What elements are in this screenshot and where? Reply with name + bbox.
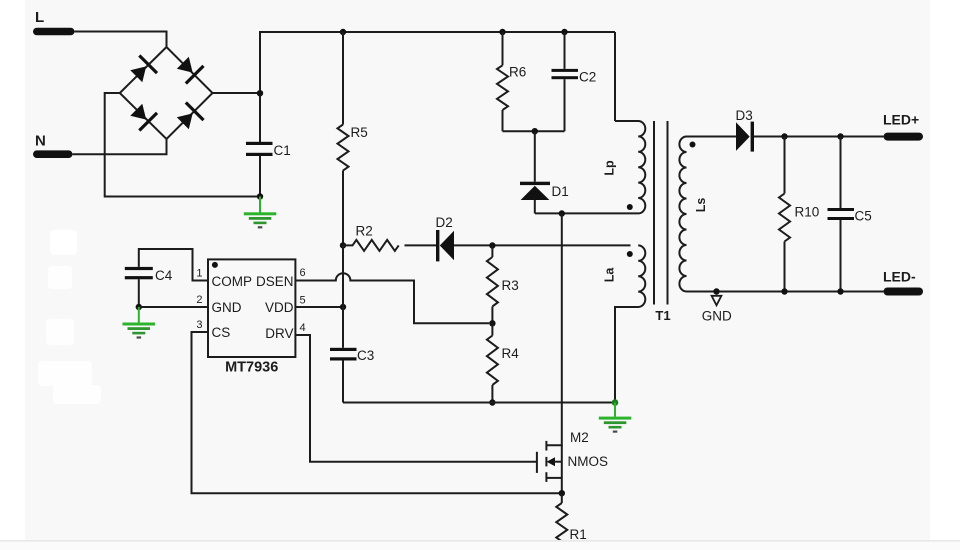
resistor R4 (487, 323, 519, 402)
wire sense bottom rail (343, 402, 615, 404)
svg-text:R1: R1 (570, 527, 587, 542)
wire DRV to gate (296, 335, 537, 462)
node R10 bottom junction (781, 288, 787, 294)
svg-text:C4: C4 (155, 268, 173, 283)
svg-text:MT7936: MT7936 (225, 360, 278, 376)
svg-text:Lp: Lp (603, 160, 617, 176)
svg-text:N: N (35, 133, 46, 150)
node sense ground junction (612, 399, 619, 406)
transformer winding Ls (679, 137, 708, 292)
wire L to bridge (75, 32, 167, 48)
wire bridge positive to C1 node (213, 92, 261, 94)
svg-text:5: 5 (300, 295, 306, 307)
ground under C4 (123, 307, 156, 339)
node R3-R4-DSEN junction (489, 320, 495, 326)
transistor M2 NMOS (537, 430, 608, 493)
wire bridge negative to ground rail (105, 93, 260, 197)
node rail-R5 junction (340, 29, 346, 35)
terminal N (33, 133, 73, 159)
node R10 top junction (781, 133, 787, 139)
svg-text:1: 1 (196, 268, 202, 280)
svg-text:R6: R6 (509, 65, 526, 80)
svg-text:La: La (603, 267, 617, 283)
svg-text:C5: C5 (855, 209, 872, 224)
bridge diode bottom-left (127, 101, 158, 132)
diode D1 (520, 131, 569, 213)
bridge rectifier frame (120, 47, 213, 139)
svg-text:CS: CS (212, 325, 231, 340)
svg-text:DSEN: DSEN (256, 274, 294, 289)
wire snubber bottom (503, 130, 565, 132)
svg-text:COMP: COMP (212, 274, 253, 289)
node R4 bottom junction (489, 399, 495, 405)
svg-text:VDD: VDD (265, 300, 294, 315)
svg-text:DRV: DRV (265, 326, 293, 341)
bridge diode top-left (127, 54, 158, 85)
bridge diode top-right (174, 54, 205, 85)
resistor R2 (343, 224, 399, 251)
node VDD junction (340, 304, 346, 310)
resistor R3 (487, 246, 519, 324)
node R5-R2-VDD junction (340, 242, 346, 248)
ground GND secondary (702, 296, 732, 324)
wire secondary top rail (754, 136, 884, 138)
wire GND pin2 (139, 306, 208, 308)
node DC+ junction (257, 90, 263, 96)
resistor R5 (338, 32, 368, 245)
resistor R10 (779, 137, 819, 292)
node DC- junction (257, 193, 263, 199)
ground under La (599, 403, 632, 433)
svg-text:R5: R5 (351, 125, 368, 140)
svg-text:2: 2 (196, 294, 202, 306)
wire N to bridge bottom vertex (73, 139, 167, 154)
svg-text:D1: D1 (552, 184, 569, 199)
transformer winding La (603, 245, 646, 402)
svg-text:4: 4 (300, 322, 306, 334)
ground primary under C1 (244, 197, 276, 229)
resistor R1 (556, 493, 567, 549)
capacitor C2 (552, 32, 597, 131)
IC U1 MT7936 (208, 259, 295, 375)
terminal LED+ (883, 112, 923, 141)
wire DSEN with hop (296, 273, 490, 323)
diode D3 (736, 108, 755, 152)
svg-text:R3: R3 (502, 278, 519, 293)
node C5 top junction (837, 133, 843, 139)
node D1 top junction (532, 128, 538, 134)
svg-text:T1: T1 (655, 308, 670, 323)
svg-text:3: 3 (196, 319, 202, 331)
svg-text:C1: C1 (274, 143, 291, 158)
wire secondary bottom rail (687, 291, 884, 293)
svg-text:LED+: LED+ (883, 112, 919, 128)
svg-text:D3: D3 (736, 108, 753, 123)
wire VDD (296, 306, 344, 308)
svg-text:6: 6 (300, 267, 306, 279)
transformer winding Lp (535, 32, 645, 213)
capacitor C1 (246, 142, 291, 197)
svg-text:D2: D2 (436, 215, 453, 230)
diode D2 (405, 215, 455, 261)
svg-text:M2: M2 (570, 430, 589, 445)
wire CS to source (192, 332, 560, 493)
resistor R6 (497, 32, 526, 131)
transformer T1 core (654, 121, 671, 323)
svg-text:R10: R10 (795, 205, 820, 220)
svg-text:GND: GND (212, 300, 242, 315)
wire DC+ rail (260, 32, 615, 143)
capacitor C3 (330, 245, 374, 402)
svg-text:L: L (35, 9, 44, 26)
node C5 bottom junction (837, 288, 843, 294)
svg-text:R4: R4 (502, 346, 520, 361)
svg-text:C2: C2 (579, 70, 596, 85)
node rail-R6 junction (499, 29, 505, 35)
svg-text:Ls: Ls (694, 198, 708, 213)
node Lp-D1-drain junction (559, 210, 565, 216)
wire Ls top to D3 (687, 136, 737, 138)
node source-CS-R1 junction (559, 490, 565, 496)
capacitor C5 (828, 137, 872, 292)
capacitor C4 (125, 267, 173, 307)
node GND tap junction (713, 288, 719, 294)
svg-text:C3: C3 (357, 348, 374, 363)
bridge diode bottom-right (174, 101, 205, 132)
transistor M2 drain wire (546, 214, 561, 446)
node rail-C2 junction (561, 29, 567, 35)
svg-text:LED-: LED- (883, 269, 916, 285)
wire D2 to La (454, 244, 631, 246)
terminal LED- (883, 269, 923, 296)
svg-text:R2: R2 (356, 224, 373, 239)
wire COMP to C4 (139, 249, 208, 281)
terminal L (33, 9, 75, 35)
svg-text:GND: GND (702, 309, 732, 324)
node C4-GND junction (136, 304, 142, 310)
svg-text:NMOS: NMOS (568, 454, 609, 469)
node R3 top junction (489, 242, 495, 248)
